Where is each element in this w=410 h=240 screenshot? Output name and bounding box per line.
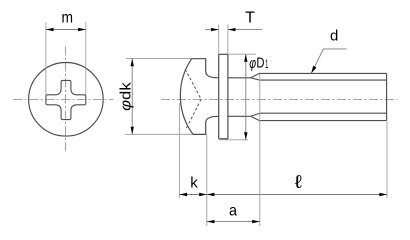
dimension phi-dk line: [131, 59, 133, 135]
wire: vertical center line, front view: [65, 47, 67, 152]
dimension T arrows: [211, 28, 235, 31]
dimension a line: [207, 221, 260, 223]
dimension T extension lines: [219, 25, 228, 55]
dimension l arrows: [207, 193, 387, 196]
dimension l extension line right: [386, 122, 388, 199]
node phillips recess (front view cross): [46, 80, 86, 119]
dimension m arrows: [46, 28, 86, 31]
svg-text:k: k: [190, 174, 198, 191]
svg-text:1: 1: [265, 59, 268, 71]
svg-text:a: a: [229, 202, 237, 219]
node recess hidden line (dashed) in head: [185, 69, 201, 130]
dimension a extension line right: [259, 74, 261, 226]
dimension phi-dk arrows: [131, 59, 134, 135]
svg-text:d: d: [330, 28, 338, 45]
svg-text:D: D: [256, 54, 264, 71]
dimension k extension lines: [179, 103, 206, 226]
svg-text:φdk: φdk: [118, 82, 135, 111]
dimension phi-D1 extension lines: [220, 54, 256, 140]
dimension l line: [207, 194, 387, 196]
dimension phi-D1 arrows: [244, 54, 247, 140]
svg-text:φ: φ: [249, 55, 256, 72]
node threaded shaft lines: [260, 73, 387, 120]
dimension m line: [46, 29, 86, 31]
dimension phi-D1 line: [245, 54, 247, 140]
node shank: [228, 78, 251, 117]
svg-text:m: m: [61, 9, 73, 26]
svg-text:ℓ: ℓ: [295, 171, 302, 192]
dimension T line with tails: [205, 29, 262, 31]
dimension a arrows: [207, 220, 260, 223]
node shaft end: [386, 73, 388, 120]
dimension k arrows: [179, 193, 206, 196]
svg-text:T: T: [245, 10, 255, 27]
leader d: [311, 49, 346, 73]
node front-view center lines: [13, 47, 397, 152]
dimension phi-dk extension lines: [125, 59, 194, 135]
node head outline (front view circle): [29, 63, 104, 137]
leader d arrow: [311, 66, 316, 74]
node thread run-out chamfer top: [251, 73, 260, 80]
node washer (side view): [219, 54, 228, 139]
wire: horizontal center line, side view: [161, 98, 398, 100]
dimension m extension lines: [46, 22, 86, 95]
node pan head (side view): [180, 59, 218, 135]
wire: horizontal center line, front view: [13, 98, 113, 100]
dimension k line: [179, 194, 206, 196]
node thread run-out chamfer bottom: [251, 113, 260, 120]
